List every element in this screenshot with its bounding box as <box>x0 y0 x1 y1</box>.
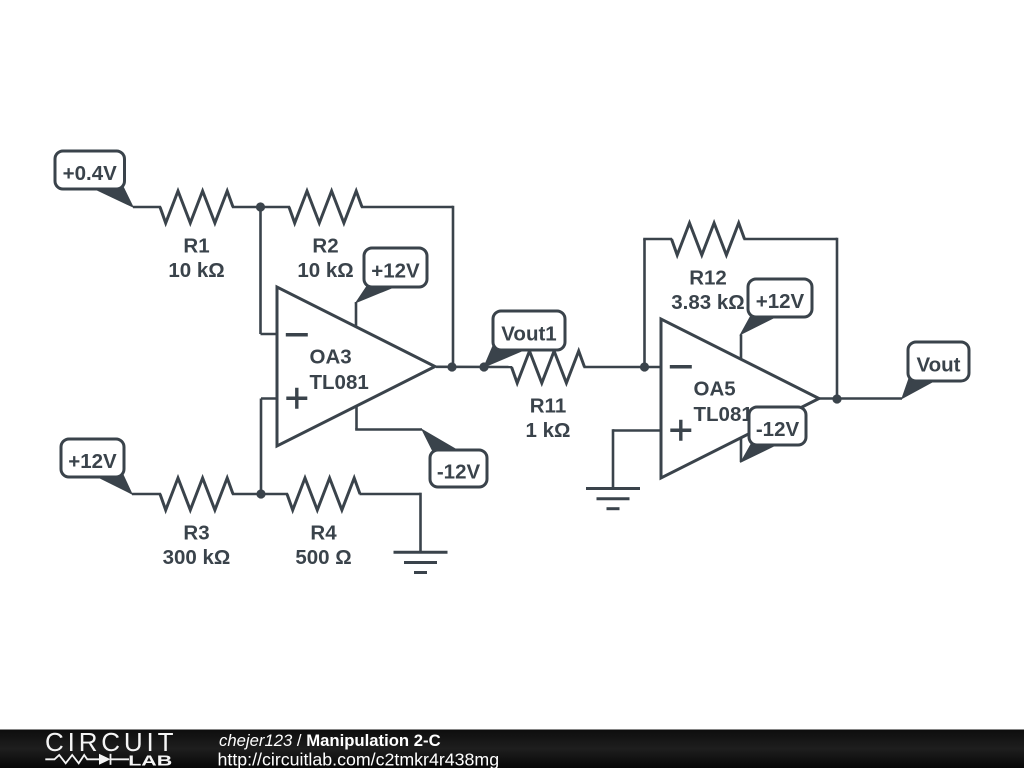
wire <box>259 207 262 334</box>
voltage label +12V (OA3 supply) <box>356 248 427 303</box>
op-amp OA3 <box>277 287 435 446</box>
wire <box>355 302 358 328</box>
wire <box>260 399 263 495</box>
resistor R2 <box>289 191 362 282</box>
svg-text:R3: R3 <box>183 521 209 544</box>
wire <box>132 493 161 496</box>
wire <box>133 206 161 209</box>
svg-text:TL081: TL081 <box>694 403 753 426</box>
voltage label -12V (OA3 supply) <box>422 430 487 488</box>
svg-text:+12V: +12V <box>756 290 805 313</box>
wire <box>261 397 278 400</box>
node label Vout1 <box>484 311 565 367</box>
svg-text:+0.4V: +0.4V <box>63 162 117 185</box>
node label Vout <box>902 342 969 399</box>
svg-text:R11: R11 <box>530 394 566 417</box>
wire <box>419 493 422 552</box>
svg-text:R1: R1 <box>183 234 209 257</box>
svg-text:10 kΩ: 10 kΩ <box>168 259 224 282</box>
ground <box>394 552 448 572</box>
voltage label +0.4V <box>55 151 133 207</box>
svg-text:1 kΩ: 1 kΩ <box>526 419 571 442</box>
svg-text:300 kΩ: 300 kΩ <box>163 546 231 569</box>
node Vout1 <box>479 362 488 371</box>
wire <box>643 238 672 241</box>
voltage label -12V (OA5 supply) <box>741 407 806 462</box>
svg-text:+12V: +12V <box>68 450 117 473</box>
wire <box>612 429 615 488</box>
wire <box>744 238 838 241</box>
wire <box>355 406 358 430</box>
svg-text:+12V: +12V <box>371 259 420 282</box>
resistor R4 <box>287 478 360 569</box>
node OA5 inverting <box>640 362 649 371</box>
wire <box>361 206 453 209</box>
node R1-R2 junction <box>256 202 265 211</box>
svg-text:10 kΩ: 10 kΩ <box>297 259 353 282</box>
wire <box>436 365 512 368</box>
node OA5 output <box>832 394 841 403</box>
svg-text:R12: R12 <box>689 266 727 289</box>
wire <box>452 206 455 367</box>
node R3-R4 junction <box>256 489 265 498</box>
wire <box>355 428 422 431</box>
svg-text:-12V: -12V <box>437 460 481 483</box>
bottom bar <box>0 730 1024 768</box>
svg-text:R4: R4 <box>310 521 337 544</box>
svg-text:3.83 kΩ: 3.83 kΩ <box>671 291 744 314</box>
ground <box>586 489 640 509</box>
voltage label +12V (OA5 supply) <box>741 279 813 335</box>
svg-text:Vout: Vout <box>916 353 960 376</box>
wire <box>740 438 743 463</box>
node OA3 output <box>447 362 456 371</box>
wire <box>740 335 743 360</box>
svg-text:-12V: -12V <box>756 418 800 441</box>
wire <box>836 238 839 399</box>
svg-text:Vout1: Vout1 <box>501 322 556 345</box>
svg-text:TL081: TL081 <box>310 371 369 394</box>
resistor R11 <box>512 351 585 442</box>
wire <box>613 429 662 432</box>
wire <box>360 493 421 496</box>
wire <box>232 206 290 209</box>
svg-text:OA3: OA3 <box>310 346 352 369</box>
wire <box>819 397 902 400</box>
resistor R3 <box>160 478 233 569</box>
CircuitLab logo <box>45 727 174 768</box>
wire <box>261 333 279 336</box>
wire <box>643 239 646 367</box>
resistor R12 <box>671 223 744 314</box>
svg-text:OA5: OA5 <box>694 378 736 401</box>
wire <box>232 493 288 496</box>
svg-text:http://circuitlab.com/c2tmkr4r: http://circuitlab.com/c2tmkr4r438mg <box>218 750 500 768</box>
svg-text:500 Ω: 500 Ω <box>295 546 351 569</box>
svg-text:chejer123 / Manipulation 2-C: chejer123 / Manipulation 2-C <box>219 731 441 750</box>
svg-text:R2: R2 <box>312 234 338 257</box>
svg-text:LAB: LAB <box>128 752 172 768</box>
resistor R1 <box>160 191 233 282</box>
logo resistor-diode squiggle <box>45 754 129 765</box>
voltage label +12V (R3 source) <box>61 439 132 494</box>
op-amp OA5 <box>661 319 819 478</box>
wire <box>584 366 663 369</box>
